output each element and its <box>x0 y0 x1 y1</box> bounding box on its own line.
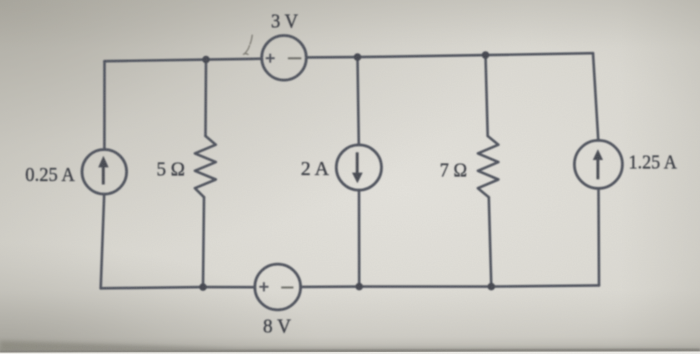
wire: 2A branch lower <box>358 190 361 287</box>
current source I3 1.25A circle <box>574 140 622 188</box>
voltage source V1 3V circle <box>262 36 307 81</box>
junction node dot bottom of R2 <box>488 283 496 291</box>
wire: top-left horizontal (node A run) <box>105 59 262 62</box>
junction node dot bottom of I2 <box>355 283 363 291</box>
wire: 2A branch upper <box>358 57 359 145</box>
wire: 7-ohm branch upper <box>486 55 488 136</box>
plus sign of V1 <box>266 54 275 63</box>
arrow of I1 (up) <box>98 156 108 185</box>
handwritten pen mark near V1 <box>243 35 252 54</box>
plus sign of V2 <box>259 282 268 291</box>
table edge dark line at bottom <box>0 349 700 353</box>
wire: 5-ohm branch upper <box>204 60 207 136</box>
wire: left vertical upper <box>103 61 106 149</box>
minus sign of V1 <box>288 57 301 59</box>
white strip at very bottom <box>0 352 700 354</box>
film grain overlay <box>0 0 1 1</box>
junction node dot top of R1 <box>202 56 210 64</box>
wire: right vertical upper <box>593 53 598 140</box>
wire: right vertical lower <box>597 188 600 285</box>
junction node dot top of I2 <box>354 53 362 61</box>
junction node dot top of R2 <box>482 51 490 59</box>
wire: left vertical lower <box>101 194 105 288</box>
current source I1 0.25A circle <box>82 150 127 195</box>
minus sign of V2 <box>281 287 293 289</box>
voltage source V2 8V circle <box>255 264 301 310</box>
wire: bottom-left horizontal <box>101 287 255 288</box>
wire: 7-ohm branch lower <box>489 197 492 286</box>
arrow of I3 (up) <box>593 149 603 179</box>
junction node dot bottom of R1 <box>199 283 207 291</box>
arrow of I2 (down) <box>352 152 363 183</box>
resistor R2 7 ohm zigzag <box>478 136 499 197</box>
wire: 5-ohm branch lower <box>203 197 204 287</box>
wire: bottom-right horizontal <box>301 285 600 287</box>
table edge dark band at bottom <box>0 341 700 352</box>
current source I2 2A circle <box>336 145 381 190</box>
resistor R1 5 ohm zigzag <box>195 136 216 197</box>
wire: top-right horizontal <box>306 53 593 57</box>
